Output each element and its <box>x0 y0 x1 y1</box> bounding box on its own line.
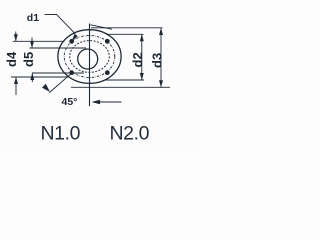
d5 top arrow shaft <box>31 38 33 49</box>
d1 leader line <box>45 14 76 40</box>
inner dashed circle d4 <box>70 41 110 73</box>
extension line d4 top <box>13 40 65 42</box>
arrowhead 45deg at center line <box>92 100 101 105</box>
svg-text:d5: d5 <box>21 52 36 67</box>
d5 bottom arrow shaft <box>31 73 33 82</box>
45deg horizontal arrow shaft <box>93 101 122 103</box>
dimension line d3 <box>160 28 162 87</box>
svg-text:d1: d1 <box>27 12 39 24</box>
arrowhead d3 bottom <box>159 80 163 87</box>
svg-text:45°: 45° <box>62 96 78 108</box>
svg-text:N1.0: N1.0 <box>41 122 81 144</box>
svg-text:d2: d2 <box>130 52 145 67</box>
hole TR <box>105 39 110 44</box>
arrowhead 45deg on diagonal <box>42 84 50 92</box>
hole BR <box>105 70 110 75</box>
extension line d2 top <box>106 33 144 35</box>
extension line d2 bottom <box>105 79 144 81</box>
extension line d5 top <box>30 47 87 49</box>
arrowhead d1 leader <box>73 34 78 40</box>
arrowhead d4 bottom <box>14 77 18 84</box>
arrowhead d5 bottom <box>30 73 34 80</box>
arrowhead d2 top <box>140 34 144 41</box>
arrowhead d2 bottom <box>140 73 144 80</box>
center hole d5 <box>78 49 98 69</box>
hole TL <box>69 39 74 44</box>
extension line d5 bottom <box>32 72 84 74</box>
arrowhead d3 top <box>159 28 163 35</box>
vertical center line <box>89 24 91 107</box>
svg-text:d3: d3 <box>149 53 164 68</box>
pitch circle (dash-dot) d2 <box>64 36 115 78</box>
d4 bottom arrow shaft <box>15 77 17 95</box>
extension line d3 bottom <box>71 86 170 88</box>
outer disc d3 <box>58 30 121 84</box>
dimension line d2 <box>141 34 143 80</box>
hole BL <box>69 70 74 75</box>
45deg hole axis diagonal <box>50 73 73 93</box>
arrowhead d4 top <box>14 34 18 41</box>
d4 top arrow shaft <box>15 32 17 42</box>
extension line d4 bottom <box>11 76 69 78</box>
arrowhead d5 top <box>30 41 34 48</box>
extension line d3 top <box>90 25 112 29</box>
svg-text:d4: d4 <box>4 51 19 67</box>
svg-text:N2.0: N2.0 <box>110 122 150 144</box>
